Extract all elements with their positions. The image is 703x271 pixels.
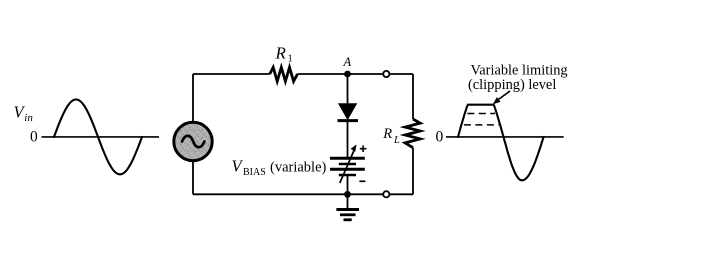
input sine wave (54, 99, 142, 174)
label R1 (275, 43, 293, 64)
wire top (source to R1, R1 to node A, node A to right corner) (193, 73, 413, 75)
node A dot (344, 71, 351, 78)
output clipped waveform (458, 105, 544, 181)
plus sign (360, 145, 367, 152)
svg-text:1: 1 (288, 54, 293, 65)
svg-text:0: 0 (30, 129, 38, 146)
resistor R1 (270, 67, 298, 81)
annotation: Variable limiting (clipping) level (468, 63, 568, 94)
terminal (open circle, top) (383, 71, 389, 77)
input axis (42, 136, 160, 138)
ground (336, 194, 359, 220)
ac source Vs (174, 122, 212, 160)
svg-text:L: L (393, 135, 400, 146)
terminal (open circle, bottom) (383, 191, 389, 197)
svg-text:(variable): (variable) (270, 160, 327, 176)
svg-text:in: in (24, 112, 33, 124)
node dot bottom (344, 191, 351, 198)
clip level dashed line 2 (464, 124, 499, 126)
svg-text:(clipping) level: (clipping) level (468, 77, 556, 93)
wire bottom (193, 193, 413, 195)
annotation arrow (493, 91, 510, 104)
wire right (412, 74, 414, 194)
svg-text:BIAS: BIAS (243, 167, 266, 178)
battery VBIAS (330, 158, 365, 175)
minus sign (359, 180, 365, 182)
resistor RL (405, 119, 420, 148)
diode D1 (338, 104, 359, 121)
wire node A to diode (347, 74, 349, 105)
svg-text:0: 0 (436, 129, 444, 146)
clip level dashed line 1 (467, 113, 495, 115)
wire battery to bottom node (347, 175, 349, 194)
wire left (source leads) (192, 74, 194, 194)
wire diode to battery (347, 121, 349, 158)
output axis (446, 136, 564, 138)
svg-text:R: R (275, 43, 287, 62)
svg-text:R: R (382, 126, 392, 142)
label VBIAS (variable) (232, 157, 327, 179)
svg-text:V: V (232, 157, 244, 176)
svg-text:A: A (343, 55, 352, 69)
variable arrow through battery (340, 144, 357, 183)
label RL (382, 126, 400, 146)
label Vin (14, 103, 34, 125)
